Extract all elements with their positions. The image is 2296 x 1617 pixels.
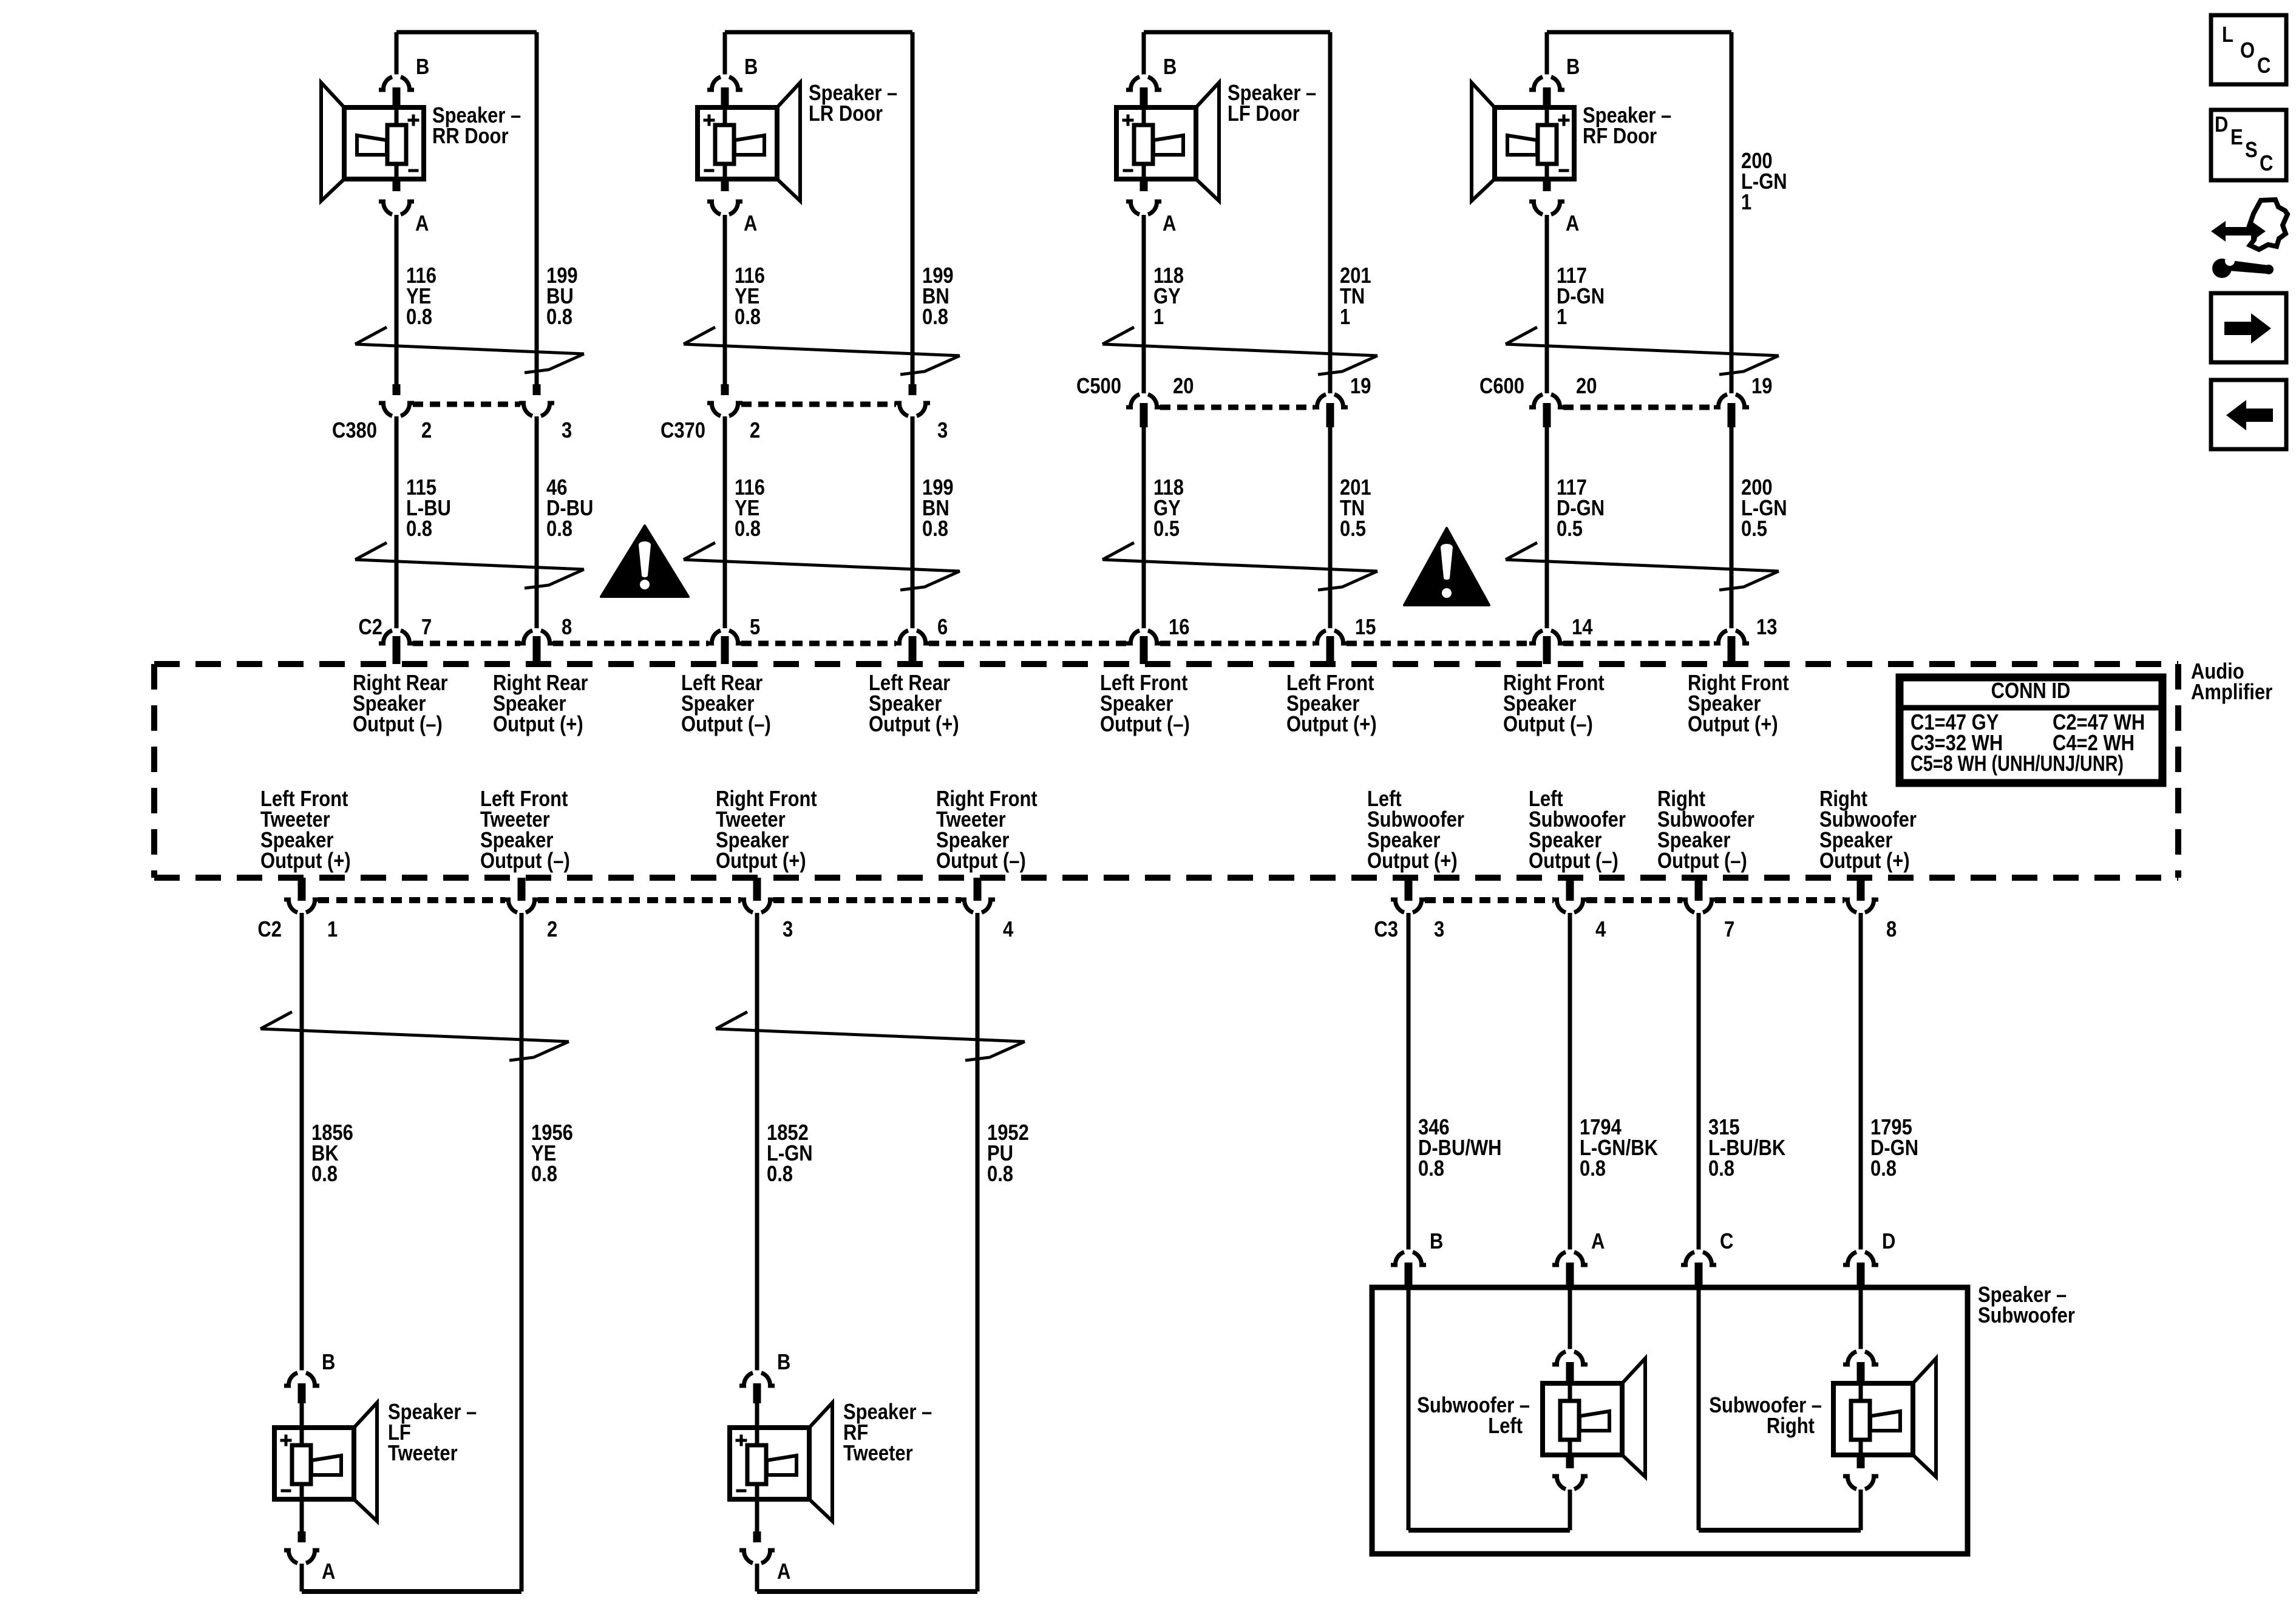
svg-text:C: C (2260, 152, 2273, 176)
svg-text:CONN ID: CONN ID (1991, 679, 2071, 703)
svg-text:Output (–): Output (–) (1529, 849, 1618, 873)
svg-text:8: 8 (562, 615, 572, 640)
svg-text:Output (–): Output (–) (353, 713, 443, 737)
svg-text:A: A (1566, 212, 1579, 236)
svg-text:0.8: 0.8 (767, 1162, 793, 1187)
svg-text:0.8: 0.8 (987, 1162, 1013, 1187)
svg-text:20: 20 (1576, 375, 1597, 399)
svg-text:13: 13 (1756, 615, 1777, 640)
svg-text:1: 1 (1557, 305, 1567, 330)
svg-text:Output (–): Output (–) (1657, 849, 1747, 873)
svg-text:0.8: 0.8 (735, 305, 761, 330)
svg-text:0.8: 0.8 (406, 517, 432, 541)
svg-text:1: 1 (1340, 305, 1350, 330)
svg-text:Right: Right (1767, 1414, 1815, 1439)
svg-text:0.8: 0.8 (1870, 1157, 1897, 1181)
svg-text:Output (+): Output (+) (1286, 713, 1377, 737)
svg-text:3: 3 (1434, 918, 1444, 942)
svg-text:S: S (2245, 138, 2258, 163)
svg-text:4: 4 (1595, 918, 1606, 942)
svg-text:2: 2 (547, 918, 557, 942)
svg-text:C600: C600 (1479, 375, 1524, 399)
svg-text:14: 14 (1572, 615, 1593, 640)
svg-text:6: 6 (937, 615, 948, 640)
svg-text:C: C (2257, 54, 2271, 78)
svg-text:C5=8 WH (UNH/UNJ/UNR): C5=8 WH (UNH/UNJ/UNR) (1911, 751, 2124, 776)
svg-text:Subwoofer: Subwoofer (1978, 1304, 2075, 1328)
svg-text:Amplifier: Amplifier (2191, 680, 2272, 705)
svg-text:3: 3 (783, 918, 793, 942)
svg-text:0.8: 0.8 (406, 305, 432, 330)
svg-text:7: 7 (1724, 918, 1734, 942)
svg-text:0.8: 0.8 (735, 517, 761, 541)
svg-text:0.8: 0.8 (546, 517, 572, 541)
svg-text:1: 1 (1153, 305, 1164, 330)
svg-text:A: A (1163, 212, 1176, 236)
svg-text:B: B (416, 55, 429, 80)
svg-text:19: 19 (1751, 375, 1772, 399)
svg-text:0.5: 0.5 (1153, 517, 1180, 541)
svg-text:A: A (744, 212, 757, 236)
svg-text:C380: C380 (332, 419, 377, 443)
svg-text:Output (–): Output (–) (936, 849, 1026, 873)
svg-text:0.5: 0.5 (1557, 517, 1583, 541)
svg-text:2: 2 (421, 419, 432, 443)
svg-text:C2: C2 (358, 615, 382, 640)
svg-text:C500: C500 (1076, 375, 1121, 399)
svg-text:1: 1 (1741, 191, 1751, 215)
svg-text:0.8: 0.8 (1708, 1157, 1734, 1181)
svg-text:Output (+): Output (+) (1688, 713, 1778, 737)
svg-text:0.8: 0.8 (311, 1162, 338, 1187)
svg-text:B: B (744, 55, 758, 80)
svg-text:L: L (2222, 23, 2233, 47)
svg-text:LF Door: LF Door (1228, 102, 1300, 126)
svg-text:LR Door: LR Door (809, 102, 883, 126)
svg-text:RF Door: RF Door (1583, 124, 1657, 149)
svg-text:Output (+): Output (+) (1819, 849, 1910, 873)
svg-text:Output (+): Output (+) (1367, 849, 1458, 873)
svg-text:0.8: 0.8 (922, 305, 948, 330)
svg-text:B: B (1566, 55, 1580, 80)
svg-text:B: B (777, 1351, 790, 1375)
svg-text:19: 19 (1350, 375, 1371, 399)
svg-text:0.8: 0.8 (1418, 1157, 1444, 1181)
svg-text:20: 20 (1173, 375, 1194, 399)
svg-text:Output (+): Output (+) (493, 713, 583, 737)
svg-text:B: B (1430, 1230, 1443, 1254)
svg-text:0.8: 0.8 (922, 517, 948, 541)
svg-text:A: A (1591, 1230, 1605, 1254)
svg-text:8: 8 (1886, 918, 1897, 942)
svg-text:16: 16 (1169, 615, 1189, 640)
svg-text:C3: C3 (1374, 918, 1398, 942)
svg-text:4: 4 (1003, 918, 1014, 942)
svg-text:C: C (1720, 1230, 1733, 1254)
svg-text:A: A (415, 212, 429, 236)
svg-text:C2: C2 (257, 918, 282, 942)
svg-text:3: 3 (937, 419, 948, 443)
svg-text:Output (+): Output (+) (260, 849, 351, 873)
svg-text:Output (–): Output (–) (1100, 713, 1190, 737)
svg-text:0.5: 0.5 (1741, 517, 1767, 541)
svg-text:A: A (777, 1560, 790, 1584)
svg-text:3: 3 (562, 419, 572, 443)
svg-text:0.5: 0.5 (1340, 517, 1366, 541)
svg-text:0.8: 0.8 (531, 1162, 557, 1187)
svg-text:D: D (2215, 113, 2228, 137)
svg-text:E: E (2230, 126, 2243, 150)
svg-text:A: A (322, 1560, 335, 1584)
svg-text:B: B (322, 1351, 335, 1375)
svg-text:15: 15 (1355, 615, 1376, 640)
svg-text:C370: C370 (661, 419, 705, 443)
svg-text:Output (–): Output (–) (681, 713, 771, 737)
svg-text:Tweeter: Tweeter (388, 1442, 458, 1466)
svg-text:1: 1 (327, 918, 338, 942)
svg-text:7: 7 (421, 615, 432, 640)
svg-text:D: D (1882, 1230, 1895, 1254)
svg-text:Output (–): Output (–) (480, 849, 570, 873)
svg-text:O: O (2240, 39, 2255, 63)
svg-text:Output (–): Output (–) (1503, 713, 1593, 737)
svg-text:0.8: 0.8 (1580, 1157, 1606, 1181)
svg-text:5: 5 (750, 615, 760, 640)
svg-text:Output (+): Output (+) (716, 849, 806, 873)
svg-text:Output (+): Output (+) (869, 713, 959, 737)
svg-text:RR Door: RR Door (432, 124, 509, 149)
svg-text:0.8: 0.8 (546, 305, 572, 330)
svg-text:Tweeter: Tweeter (843, 1442, 913, 1466)
svg-text:B: B (1163, 55, 1177, 80)
svg-text:Left: Left (1488, 1414, 1523, 1439)
svg-text:2: 2 (750, 419, 760, 443)
